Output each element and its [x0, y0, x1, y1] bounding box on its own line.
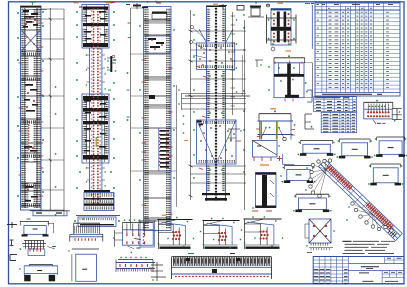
- dimension line of member K3: [127, 8, 177, 230]
- web member section detail: [252, 165, 282, 211]
- reference cross mark: [277, 154, 294, 164]
- plate detail e: [68, 249, 99, 281]
- reference line: [311, 5, 313, 49]
- braced panel detail with X brace: [305, 219, 335, 253]
- base plate of member K1: [30, 211, 70, 216]
- connection detail row - beam stub 3: [374, 137, 407, 157]
- stiffener ladder detail b: [20, 241, 56, 256]
- dimension lines of member K4: [189, 10, 245, 210]
- title block: [313, 257, 404, 284]
- weld callout detail: [107, 55, 116, 72]
- isometric view of brace member: [319, 160, 403, 241]
- beam splice detail g: [116, 257, 155, 272]
- bearing detail with packing plates: [256, 109, 295, 141]
- section detail 1-1: [266, 3, 296, 51]
- bracket detail: [305, 90, 314, 129]
- beam end detail c: [19, 265, 57, 282]
- riveted chord plan detail d: [70, 218, 103, 241]
- lattice member K3 (elevation): [139, 1, 175, 231]
- weight summary table: [314, 97, 357, 112]
- joint detail node 2: [200, 218, 241, 249]
- joint detail node 1: [155, 215, 194, 249]
- general notes text: [343, 241, 396, 253]
- anchor bolt layout detail: [364, 100, 402, 124]
- beam seat detail a: [20, 219, 54, 237]
- fitting detail: [248, 2, 264, 17]
- splice plate below member K3: [138, 221, 156, 247]
- beam stub detail 4: [282, 166, 316, 183]
- beam stub detail 6: [293, 194, 331, 212]
- callout balloons of brace member: [305, 159, 396, 235]
- connection detail row - beam stub 2: [337, 139, 373, 158]
- stray reference marks: [108, 23, 131, 117]
- riveted chord elevation detail: [172, 254, 272, 280]
- bolts list table: [321, 112, 356, 132]
- green reference dots: [55, 86, 57, 216]
- fitting marks near member K4: [228, 129, 242, 142]
- connection detail row - beam stub 1: [298, 141, 336, 156]
- end post detail k: [149, 262, 166, 281]
- lattice column member K1 (elevation): [17, 2, 44, 210]
- gusset plate detail: [253, 141, 280, 162]
- grid tick line: [231, 12, 238, 115]
- dimension lines of member K1: [41, 8, 64, 216]
- base plate detail of member K2: [74, 216, 120, 227]
- section cut marks in left margin: [7, 222, 17, 261]
- section detail 2-2: [268, 55, 312, 101]
- riveted column member K2 (elevation): [74, 3, 115, 211]
- material schedule table: [315, 3, 400, 96]
- view title marks along top edge: [29, 3, 315, 11]
- column member K4 with gusset plates (elevation): [178, 4, 250, 201]
- weld mark detail: [255, 60, 263, 67]
- bolt plan detail f: [113, 220, 153, 254]
- joint detail node 3: [241, 216, 283, 249]
- beam stub detail 5: [368, 164, 403, 185]
